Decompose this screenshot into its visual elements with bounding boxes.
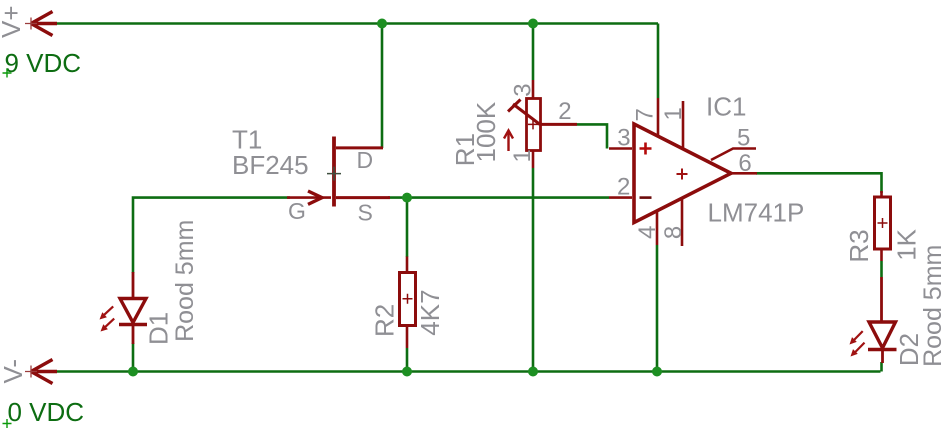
origin cross 0VDC	[3, 419, 12, 428]
svg-text:2: 2	[617, 174, 630, 201]
svg-text:4K7: 4K7	[415, 289, 445, 335]
diode D2 LED Rood 5mm	[868, 277, 897, 363]
svg-text:V+: V+	[0, 5, 26, 38]
svg-text:D: D	[357, 147, 374, 173]
svg-text:Rood 5mm: Rood 5mm	[171, 220, 199, 342]
svg-text:R2: R2	[370, 304, 400, 337]
junction dot top drain	[377, 19, 387, 29]
resistor R2 4K7	[400, 257, 416, 349]
origin cross 9VDC	[3, 69, 12, 78]
wire R1 top	[532, 24, 535, 81]
wire drain drop	[381, 24, 384, 149]
wire D1 bottom	[132, 343, 135, 372]
D1 light arrows	[100, 306, 115, 331]
svg-text:3: 3	[510, 83, 537, 96]
junction dot bottom pin4	[652, 367, 662, 377]
svg-text:V-: V-	[0, 359, 28, 384]
svg-text:100K: 100K	[471, 101, 501, 162]
wire R1 bottom	[532, 168, 535, 372]
svg-text:4: 4	[634, 226, 661, 239]
svg-text:IC1: IC1	[706, 92, 746, 122]
svg-text:1K: 1K	[891, 228, 921, 260]
svg-text:1: 1	[660, 107, 687, 120]
wire S net to pin2	[388, 196, 609, 199]
svg-text:S: S	[358, 200, 373, 226]
svg-text:Rood 5mm: Rood 5mm	[919, 245, 944, 367]
junction dot bottom D1	[128, 367, 138, 377]
wire pin4 drop	[656, 245, 659, 372]
junction dot S node	[402, 193, 412, 203]
svg-text:5: 5	[737, 125, 750, 152]
op-amp minus input mark	[640, 196, 652, 199]
diode D1 LED Rood 5mm	[119, 272, 147, 344]
D2 light arrows	[850, 331, 865, 356]
resistor R3 1K	[875, 191, 891, 261]
junction dot bottom R1	[528, 367, 538, 377]
supply arrow V+	[31, 12, 57, 36]
supply arrow V-	[31, 360, 57, 384]
wire R2 bottom	[406, 348, 409, 372]
wire R3 to D2	[880, 261, 883, 277]
wire wiper net	[577, 124, 607, 148]
wire D2 bottom	[880, 362, 883, 372]
transistor T1 BF245 (JFET)	[287, 137, 390, 207]
svg-text:7: 7	[632, 108, 659, 121]
wire top rail V+	[50, 24, 658, 99]
svg-text:BF245: BF245	[232, 150, 309, 180]
svg-text:9 VDC: 9 VDC	[5, 48, 82, 78]
junction dot bottom R2	[402, 367, 412, 377]
svg-text:2: 2	[558, 98, 571, 125]
wire bottom rail	[50, 370, 881, 373]
svg-text:1: 1	[509, 149, 536, 162]
svg-text:6: 6	[738, 150, 751, 177]
wire output net	[756, 173, 882, 193]
svg-text:0 VDC: 0 VDC	[8, 397, 85, 427]
transistor T1 origin cross	[327, 167, 341, 181]
junction dot top R1	[528, 19, 538, 29]
op-amp IC1 LM741P	[609, 98, 757, 246]
svg-text:3: 3	[617, 125, 630, 152]
op-amp origin cross	[677, 169, 688, 180]
wire gate net	[133, 198, 290, 273]
svg-text:G: G	[288, 198, 306, 224]
resistor R1 100K trimmer	[508, 80, 577, 168]
wire R2 top	[406, 198, 409, 257]
R1 adjust arrow	[504, 131, 513, 152]
svg-text:8: 8	[660, 226, 687, 239]
svg-text:D1: D1	[143, 312, 173, 345]
svg-text:R3: R3	[844, 229, 874, 262]
svg-text:LM741P: LM741P	[708, 198, 805, 228]
op-amp plus input mark	[640, 143, 652, 155]
